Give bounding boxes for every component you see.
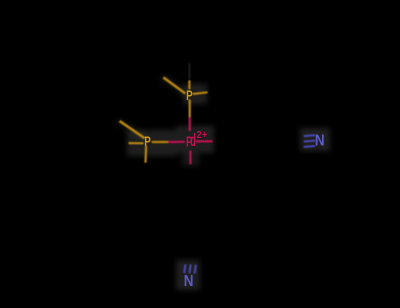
svg-text:d: d: [190, 131, 196, 151]
svg-text:N: N: [315, 132, 325, 149]
svg-text:2+: 2+: [197, 129, 208, 140]
svg-text:N: N: [184, 273, 194, 290]
svg-text:P: P: [144, 133, 151, 149]
svg-text:P: P: [186, 87, 193, 103]
